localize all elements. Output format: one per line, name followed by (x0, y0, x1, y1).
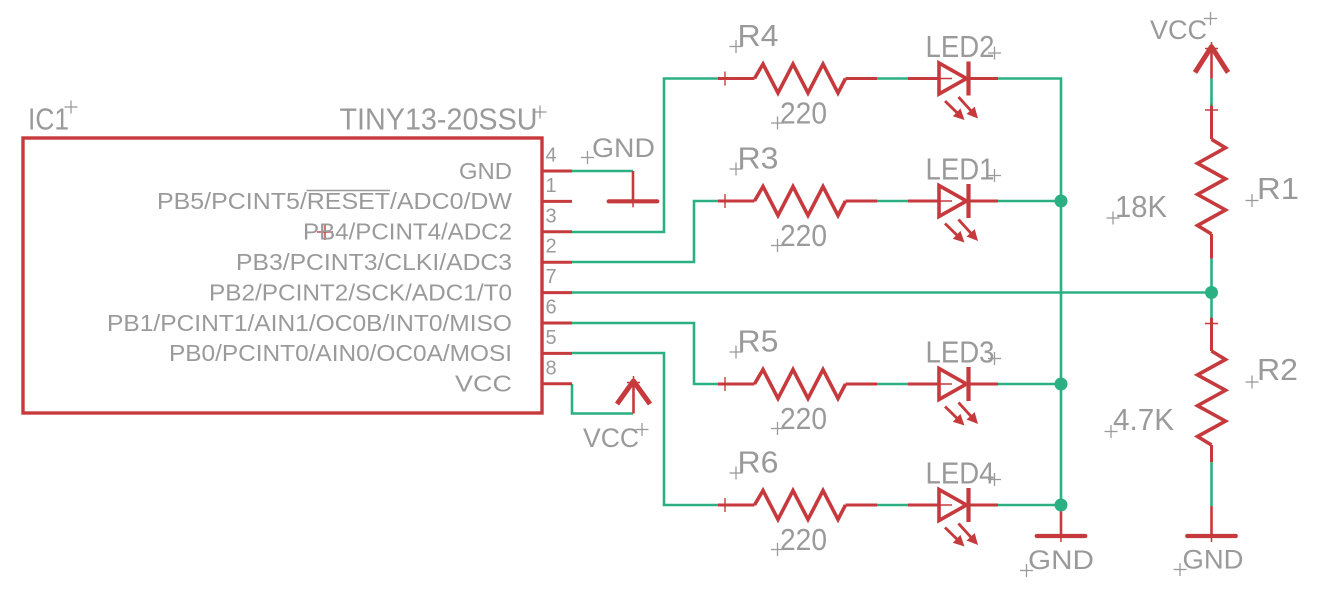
svg-text:2: 2 (546, 236, 557, 258)
svg-text:1: 1 (546, 175, 557, 197)
svg-text:R3: R3 (738, 142, 779, 176)
svg-text:220: 220 (780, 402, 827, 436)
svg-text:220: 220 (780, 219, 827, 253)
svg-text:4: 4 (546, 145, 557, 167)
svg-text:5: 5 (546, 327, 557, 349)
svg-text:LED4: LED4 (926, 457, 995, 491)
svg-text:PB4/PCINT4/ADC2: PB4/PCINT4/ADC2 (303, 219, 512, 245)
svg-text:PB3/PCINT3/CLKI/ADC3: PB3/PCINT3/CLKI/ADC3 (236, 249, 512, 275)
svg-text:PB2/PCINT2/SCK/ADC1/T0: PB2/PCINT2/SCK/ADC1/T0 (209, 279, 512, 305)
svg-text:LED1: LED1 (926, 153, 995, 187)
svg-text:IC1: IC1 (28, 103, 69, 137)
svg-text:PB0/PCINT0/AIN0/OC0A/MOSI: PB0/PCINT0/AIN0/OC0A/MOSI (169, 340, 512, 366)
svg-text:PB1/PCINT1/AIN1/OC0B/INT0/MISO: PB1/PCINT1/AIN1/OC0B/INT0/MISO (107, 310, 512, 336)
svg-text:VCC: VCC (1150, 15, 1207, 45)
svg-text:R4: R4 (738, 19, 779, 53)
svg-text:TINY13-20SSU: TINY13-20SSU (340, 103, 538, 137)
svg-text:GND: GND (1028, 545, 1094, 575)
svg-text:18K: 18K (1115, 190, 1167, 224)
svg-text:VCC: VCC (583, 423, 639, 453)
svg-text:GND: GND (1183, 545, 1244, 575)
svg-text:VCC: VCC (455, 371, 512, 397)
svg-text:GND: GND (592, 133, 655, 163)
svg-text:LED2: LED2 (926, 30, 995, 64)
svg-text:R6: R6 (738, 446, 779, 480)
svg-text:R5: R5 (738, 325, 779, 359)
svg-text:R1: R1 (1257, 172, 1299, 206)
svg-text:8: 8 (546, 357, 557, 379)
svg-text:4.7K: 4.7K (1113, 403, 1174, 437)
svg-text:GND: GND (459, 158, 512, 184)
svg-text:PB5/PCINT5/RESET/ADC0/DW: PB5/PCINT5/RESET/ADC0/DW (157, 188, 512, 214)
svg-text:7: 7 (546, 266, 557, 288)
svg-text:3: 3 (546, 205, 557, 227)
svg-text:LED3: LED3 (926, 336, 995, 370)
svg-text:220: 220 (780, 523, 827, 557)
svg-text:6: 6 (546, 297, 557, 319)
svg-text:220: 220 (780, 97, 827, 131)
svg-text:R2: R2 (1257, 353, 1298, 387)
